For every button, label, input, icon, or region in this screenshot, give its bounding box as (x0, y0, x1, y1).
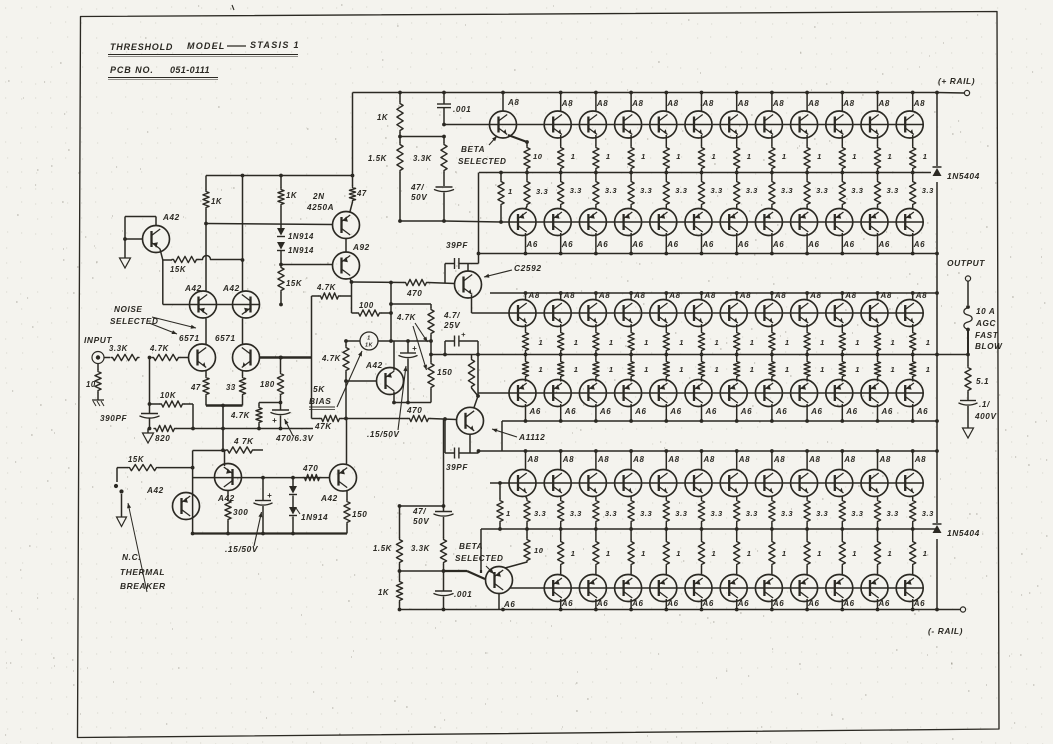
svg-text:15K: 15K (286, 279, 303, 288)
svg-text:400V: 400V (974, 412, 997, 421)
resistor 15K ref (163, 259, 172, 261)
svg-text:1: 1 (750, 365, 755, 374)
transistor Q bank1 A6-2 (544, 209, 571, 236)
svg-text:A6: A6 (596, 240, 608, 249)
4.7K arrows (415, 323, 428, 342)
svg-text:1: 1 (923, 152, 928, 161)
wire A92-470 row (352, 281, 405, 284)
svg-text:MODEL: MODEL (187, 41, 226, 51)
svg-text:1: 1 (891, 365, 896, 374)
transistor Q bank1 A6-3 (579, 209, 606, 236)
svg-text:3.3K: 3.3K (109, 344, 129, 353)
bank2 A6 collector lead 4 (630, 404, 632, 421)
chassis ground input (97, 392, 99, 400)
svg-text:A8: A8 (528, 291, 540, 300)
capacitor 39PF top (444, 264, 446, 284)
bank2 emitter resistor 1 top #11 (877, 324, 879, 331)
bank3 A8 collector lead 12 (912, 451, 914, 470)
wire x478 150col (477, 355, 479, 397)
bank3 resistor 3.3 #7 (771, 496, 773, 499)
svg-text:A6: A6 (807, 599, 819, 608)
svg-text:1: 1 (926, 338, 931, 347)
bank3 A6 collector lead 10 (877, 599, 879, 610)
bank2 emitter resistor 1 top #8 (771, 324, 773, 331)
bank1 bottom bus (479, 253, 938, 255)
svg-text:SELECTED: SELECTED (110, 317, 158, 326)
svg-text:A8: A8 (598, 291, 610, 300)
svg-text:OUTPUT: OUTPUT (947, 258, 985, 268)
transistor Q bank2 A6-7 (720, 380, 747, 407)
transistor Q bank3 A6-11 (896, 575, 923, 602)
svg-text:A6: A6 (561, 240, 573, 249)
transistor Q A42 cascode left (190, 291, 217, 318)
bank2 A8 collector lead 11 (877, 293, 879, 301)
bank2 emitter resistor 1 top #3 (595, 324, 597, 331)
transistor Q C2592 (455, 271, 482, 298)
svg-text:A8: A8 (563, 291, 575, 300)
transistor Q bank3 A8-11 (861, 470, 888, 497)
wire A42b coll (224, 450, 226, 466)
svg-text:(+ RAIL): (+ RAIL) (938, 76, 975, 86)
wire casc2 collector (242, 176, 244, 261)
bank1 emitter resistor 1 #5 (701, 135, 703, 146)
transistor Q A42 src-b (215, 464, 242, 491)
bank3 mid bus (481, 528, 937, 530)
bank1 A6 collector lead 5 (665, 233, 667, 254)
registration tick (232, 5, 234, 10)
bank1 emitter resistor 1 #9 (841, 135, 843, 146)
bank3 A6 collector lead 3 (630, 599, 632, 610)
svg-text:A6: A6 (740, 407, 752, 416)
svg-text:3.3: 3.3 (781, 186, 793, 195)
A42 ref feedback loop (155, 217, 157, 226)
transistor Q bank1 A8-3 (615, 111, 642, 138)
bank2 A6 collector lead 11 (877, 404, 879, 421)
svg-text:A8: A8 (702, 99, 714, 108)
bank2 resistor 1 bottom #11 (877, 355, 879, 361)
ground arrow output (963, 428, 974, 438)
transistor Q bank1 A8-1 (544, 111, 571, 138)
transistor Q bank1 A8-8 (791, 111, 818, 138)
svg-text:1: 1 (782, 549, 787, 558)
node cap15 top (261, 476, 265, 480)
svg-text:3.3: 3.3 (711, 186, 723, 195)
resistor 820 (154, 425, 176, 431)
row 571 (400, 570, 444, 572)
bank2 A8 collector lead 5 (665, 293, 667, 301)
svg-text:3.3: 3.3 (570, 509, 582, 518)
svg-text:4.7K: 4.7K (396, 313, 417, 322)
svg-text:1: 1 (609, 365, 614, 374)
svg-text:A6: A6 (878, 240, 890, 249)
pcb underline (108, 77, 218, 79)
svg-text:A42: A42 (365, 361, 383, 370)
bank1 A6 collector lead 11 (877, 233, 879, 254)
node 445 base row (443, 417, 447, 421)
wire casc1-6571-1 (205, 319, 207, 345)
node 391-304 (389, 302, 393, 306)
bank1 A6 collector lead 10 (841, 233, 843, 254)
feedback 47K row (320, 415, 341, 421)
svg-text:3.3: 3.3 (746, 509, 758, 518)
svg-text:A6: A6 (666, 240, 678, 249)
bank2 emitter resistor 1 top #6 (701, 324, 703, 331)
svg-text:4250A: 4250A (306, 203, 334, 212)
capacitor 4.7/25V (444, 341, 446, 355)
svg-text:A6: A6 (845, 407, 857, 416)
bottom rail (400, 609, 938, 611)
bank3 resistor 3.3 #4 (665, 496, 667, 499)
bank3 resistor 1 low #11 (912, 529, 914, 540)
diode 1N5404 top (931, 166, 943, 182)
transistor Q bank3 A8-7 (720, 470, 747, 497)
svg-text:1: 1 (888, 549, 893, 558)
svg-text:390PF: 390PF (100, 414, 128, 423)
bank1 resistor 3.3 #11 (912, 173, 914, 181)
svg-text:A8: A8 (809, 291, 821, 300)
svg-text:1: 1 (891, 338, 896, 347)
svg-text:1: 1 (508, 187, 513, 196)
bank3 A8 collector lead 11 (877, 451, 879, 470)
bank2 A8 collector lead 8 (771, 293, 773, 301)
svg-text:A8: A8 (879, 455, 891, 464)
bank1 A8 collector lead 10 (877, 93, 879, 113)
svg-text:1: 1 (785, 365, 790, 374)
bank2 A8 collector lead 12 (912, 293, 914, 301)
bank1 emitter resistor 1 #2 (595, 135, 597, 146)
bank2 top bus (490, 292, 937, 294)
bank2 A6 base line (478, 392, 923, 394)
transistor Q bank2 A6-12 (896, 380, 923, 407)
svg-text:A8: A8 (527, 455, 539, 464)
bank2 resistor 1 bottom #6 (701, 355, 703, 361)
svg-text:A6: A6 (913, 599, 925, 608)
bank1 A6 collector lead 4 (630, 233, 632, 254)
svg-text:1: 1 (747, 152, 752, 161)
bank3 A8 collector lead 5 (665, 451, 667, 470)
svg-text:A8: A8 (738, 455, 750, 464)
transistor Q bank2 A6-2 (544, 380, 571, 407)
bank1 resistor 3.3 #7 (771, 173, 773, 181)
wire c2592 emitter (471, 295, 473, 313)
driver b3 base wire (444, 570, 468, 572)
svg-text:+: + (412, 344, 417, 353)
svg-text:180: 180 (260, 380, 275, 389)
svg-text:1: 1 (571, 549, 576, 558)
node 10K-820 (191, 427, 195, 431)
bank1 A6 collector lead 2 (560, 233, 562, 254)
transistor Q bank3 A8-5 (650, 470, 677, 497)
wire a92em-4.7K (340, 295, 352, 297)
bank2 A8 collector lead 1 (525, 293, 527, 301)
transistor Q bank3 A8-8 (755, 470, 782, 497)
svg-text:1: 1 (855, 338, 860, 347)
resistor 4.7K a92 (351, 282, 353, 296)
svg-text:A6: A6 (807, 240, 819, 249)
svg-text:3.3: 3.3 (816, 509, 828, 518)
bank3 A8 base line (490, 482, 923, 484)
svg-text:10: 10 (533, 152, 543, 161)
wire 180 bottom (280, 396, 282, 403)
bank3 resistor 1 low #7 (771, 529, 773, 540)
transistor Q bank3 A8-12 (896, 470, 923, 497)
transistor Q bank1 A6-1 (509, 209, 536, 236)
bank2 A6 collector lead 7 (736, 404, 738, 421)
svg-text:A8: A8 (843, 455, 855, 464)
transistor Q driver A6 bank3 (486, 567, 513, 594)
bank2 emitter resistor 1 top #5 (665, 324, 667, 331)
wire A42b emitter (393, 392, 395, 403)
transistor Q bank1 A6-5 (650, 209, 677, 236)
svg-text:BLOW: BLOW (975, 342, 1003, 351)
svg-text:1: 1 (817, 549, 822, 558)
transistor Q bank2 A8-11 (861, 300, 888, 327)
svg-text:1.5K: 1.5K (368, 154, 388, 163)
svg-text:3.3: 3.3 (675, 509, 687, 518)
cascode base rail (163, 304, 260, 306)
svg-text:10: 10 (534, 546, 544, 555)
svg-text:100: 100 (359, 301, 374, 310)
svg-text:A8: A8 (773, 455, 785, 464)
svg-text:3.3: 3.3 (675, 186, 687, 195)
svg-text:+: + (267, 491, 272, 500)
svg-text:39PF: 39PF (446, 241, 468, 250)
resistor 3.3K bottom (440, 538, 446, 564)
svg-text:A42: A42 (162, 213, 180, 222)
svg-text:6571: 6571 (179, 334, 200, 343)
bank1 A6 collector lead 6 (701, 233, 703, 254)
svg-text:1: 1 (817, 152, 822, 161)
svg-text:A8: A8 (596, 99, 608, 108)
bank1 mid bus (479, 172, 937, 174)
transistor Q bank3 A6-9 (826, 575, 853, 602)
diode 1N914 b (277, 242, 285, 250)
svg-text:BETA: BETA (461, 145, 485, 154)
capacitor .1/400V (967, 392, 969, 400)
bank2 emitter resistor 1 top #7 (736, 324, 738, 331)
svg-text:A6: A6 (503, 600, 515, 609)
diode 1N914 d (292, 496, 294, 508)
svg-text:1N5404: 1N5404 (947, 528, 980, 538)
bank1 A8 base line (489, 124, 923, 126)
bank1 resistor 3.3 #10 (877, 173, 879, 181)
svg-text:1: 1 (855, 365, 860, 374)
transistor Q bank2 A8-7 (720, 300, 747, 327)
bank2 A8 collector lead 2 (560, 293, 562, 301)
bank1 A8 collector lead 5 (701, 93, 703, 113)
wire c2592 collector (467, 264, 469, 272)
transistor Q bank1 A6-6 (685, 209, 712, 236)
wire 1K left down (205, 209, 207, 224)
emitter row 402 (394, 402, 431, 404)
transistor Q bank1 A8-11 (896, 111, 923, 138)
right bus x936 (936, 93, 938, 610)
resistor 150 b2 (471, 355, 473, 359)
bank1 emitter resistor 1 #6 (736, 135, 738, 146)
wire 221 to bank1 base (444, 221, 501, 222)
node cap470 bottom (279, 427, 283, 431)
bank3 resistor 3.3 #3 (630, 496, 632, 499)
bank3 resistor 1 low #1 (560, 529, 562, 540)
svg-text:150: 150 (437, 368, 452, 377)
bank3 resistor 1 low #3 (630, 529, 632, 540)
transistor Q bank2 A6-11 (861, 380, 888, 407)
svg-text:3.3: 3.3 (605, 509, 617, 518)
bank2 emitter resistor 1 top #4 (630, 324, 632, 331)
beta arrow b1 (489, 136, 497, 145)
fuse 10A (964, 308, 972, 330)
15/50V arrow (398, 366, 406, 430)
svg-text:1: 1 (785, 338, 790, 347)
svg-text:A6: A6 (666, 599, 678, 608)
svg-text:A8: A8 (807, 99, 819, 108)
capacitor 390PF (149, 404, 151, 413)
svg-text:1: 1 (715, 365, 720, 374)
resistor 4.7K input (152, 354, 180, 360)
svg-text:THRESHOLD: THRESHOLD (110, 42, 173, 52)
wire 100-391 (381, 312, 391, 314)
bank1 driver collector lead (502, 93, 504, 112)
transistor Q bank1 A8-4 (650, 111, 677, 138)
rail to -terminal (937, 609, 960, 611)
svg-text:A6: A6 (561, 599, 573, 608)
node 47 top (351, 174, 355, 178)
bank2 A8 collector lead 9 (806, 293, 808, 301)
(+RAIL) terminal (964, 90, 969, 95)
capacitor 47/50V bottom (443, 506, 445, 511)
svg-text:3.3: 3.3 (534, 509, 546, 518)
bank3 resistor 1 low #9 (841, 529, 843, 540)
right bus dots (935, 91, 939, 95)
top-left bus (206, 175, 353, 177)
svg-text:4.7/: 4.7/ (443, 311, 460, 320)
wire 192 column (192, 451, 194, 534)
node tail-4.7K (221, 448, 225, 452)
bank2 A6 collector lead 3 (595, 404, 597, 421)
bank1 resistor 3.3 #8 (806, 173, 808, 181)
bank2 A6 collector lead 9 (806, 404, 808, 421)
transistor Q bank1 A6-12 (896, 209, 923, 236)
svg-text:4.7K: 4.7K (316, 283, 337, 292)
bank3 resistor 1 low #2 (595, 529, 597, 540)
svg-text:A8: A8 (633, 291, 645, 300)
transistor Q A42 ref (143, 226, 170, 253)
transistor Q bank2 A8-4 (615, 300, 642, 327)
resistor 10 b3 (526, 529, 528, 538)
input jack J1 (92, 352, 104, 364)
wire 2N-A92 (345, 239, 347, 253)
base line 2N4250A (206, 224, 333, 225)
node casc2 15K (241, 258, 245, 262)
trimmer row (346, 340, 360, 342)
left column x478 (478, 173, 480, 264)
svg-text:.001: .001 (453, 105, 471, 114)
transistor Q bank2 A6-3 (579, 380, 606, 407)
transistor Q bank3 A6-2 (579, 575, 606, 602)
svg-text:10K: 10K (160, 391, 177, 400)
svg-text:3.3: 3.3 (781, 509, 793, 518)
svg-text:A6: A6 (669, 407, 681, 416)
node tail-820 (221, 427, 225, 431)
bank1 resistor 3.3 #5 (701, 173, 703, 181)
svg-text:1: 1 (923, 549, 928, 558)
bank1 resistor 3.3 #6 (736, 173, 738, 181)
wire diode top (280, 206, 282, 228)
svg-text:A6: A6 (916, 407, 928, 416)
wire fuse-bus (967, 330, 969, 355)
bank3 A8 collector lead 2 (560, 451, 562, 470)
svg-text:A42: A42 (320, 494, 338, 503)
node 533 dots (226, 532, 230, 536)
bank2 A6 collector lead 5 (665, 404, 667, 421)
svg-text:1: 1 (715, 338, 720, 347)
svg-text:1K: 1K (365, 343, 373, 349)
bank1 A8 collector lead 6 (736, 93, 738, 113)
top rail corner (352, 93, 354, 176)
wire diode-node (280, 251, 282, 265)
svg-text:1: 1 (820, 365, 825, 374)
svg-text:A8: A8 (507, 98, 519, 107)
svg-text:A6: A6 (772, 240, 784, 249)
svg-text:3.3: 3.3 (711, 509, 723, 518)
bank3 A6 collector lead 11 (912, 599, 914, 610)
svg-text:FAST: FAST (975, 331, 999, 340)
wire a1112 coll to bank3 (478, 451, 480, 453)
node 180 top (279, 356, 283, 360)
bank3 resistor 1 low #6 (736, 529, 738, 540)
svg-text:470: 470 (302, 464, 318, 473)
bank1 resistor 3.3 #9 (841, 173, 843, 181)
bank3 A6 collector lead 1 (560, 599, 562, 610)
transistor Q bank3 A6-4 (650, 575, 677, 602)
bank1 resistor 3.3 #1 (560, 173, 562, 181)
row 221 (400, 220, 444, 222)
svg-text:A6: A6 (775, 407, 787, 416)
transistor Q 6571 left (189, 344, 216, 371)
transistor Q A1112 (457, 407, 484, 434)
svg-text:A8: A8 (914, 455, 926, 464)
transistor Q bank2 A8-8 (755, 300, 782, 327)
bank3 resistor 1 low #4 (665, 529, 667, 540)
bank1 emitter resistor 1 #8 (806, 135, 808, 146)
svg-text:1K: 1K (377, 113, 389, 122)
svg-text:1: 1 (747, 549, 752, 558)
svg-text:AGC: AGC (975, 319, 996, 328)
capacitor 15/50V bias (407, 341, 409, 353)
bank3 A8 collector lead 9 (806, 451, 808, 470)
svg-text:1: 1 (574, 338, 579, 347)
svg-text:3.3K: 3.3K (411, 544, 431, 553)
diode 1N5404 bottom (931, 523, 943, 539)
bank2 A8 collector lead 3 (595, 293, 597, 301)
bank3 resistor 3.3 #6 (736, 496, 738, 499)
capacitor .001 top (443, 93, 445, 104)
output bus dots (443, 353, 447, 357)
bank2 A6 collector lead 12 (912, 404, 914, 421)
transistor Q A42 cascode right (233, 291, 260, 318)
transistor Q driver A8 bank1 (490, 111, 517, 138)
transistor Q bank2 A8-10 (826, 300, 853, 327)
svg-text:3.3: 3.3 (605, 186, 617, 195)
svg-text:PCB NO.: PCB NO. (110, 65, 154, 75)
bank1 A6 collector lead 7 (736, 233, 738, 254)
node fuse bottom (966, 328, 970, 332)
bias arrow (337, 351, 362, 407)
resistor 1 b3r1 (499, 483, 501, 499)
svg-text:A6: A6 (596, 599, 608, 608)
wire tail down (222, 406, 224, 451)
svg-text:1: 1 (644, 365, 649, 374)
